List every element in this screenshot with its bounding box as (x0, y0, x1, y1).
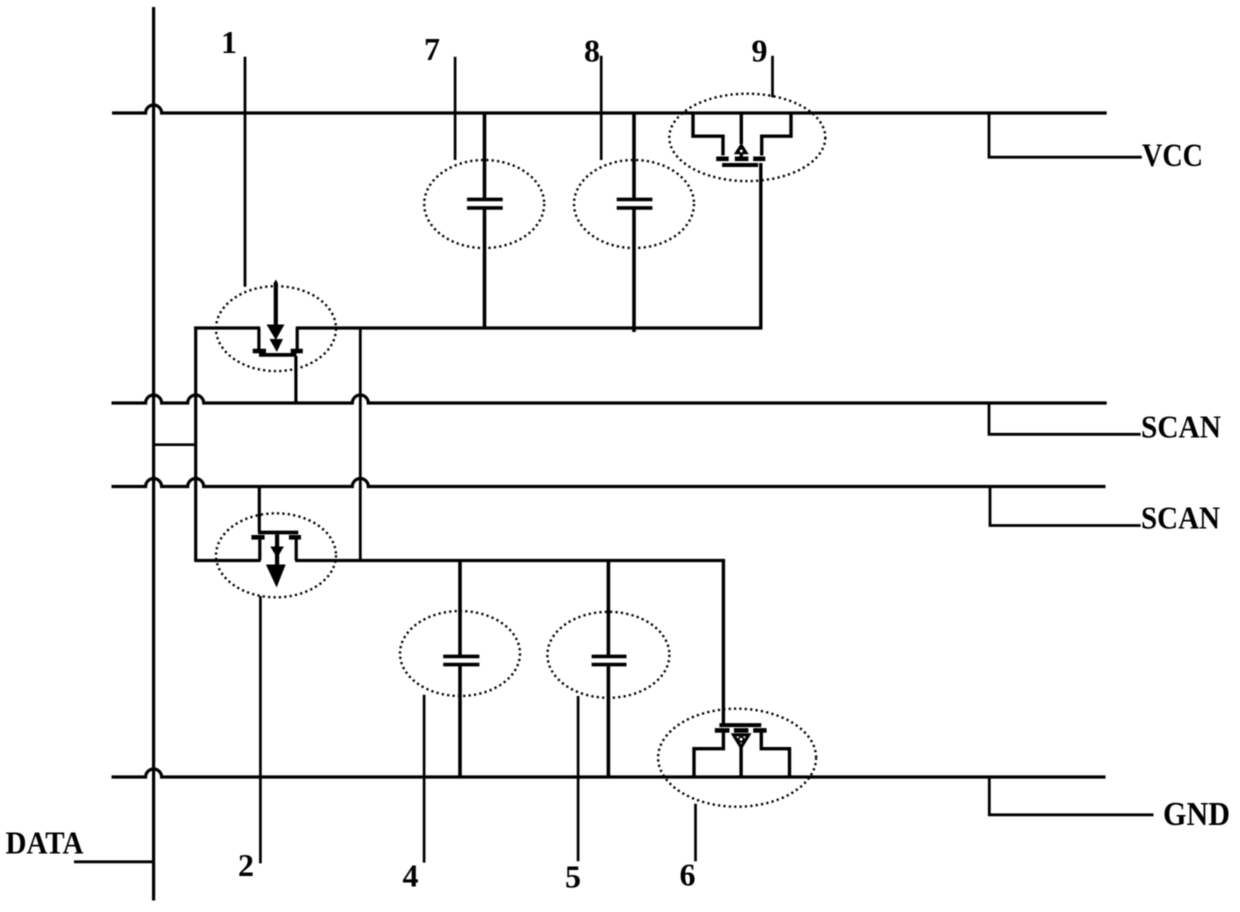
label 6 (680, 857, 696, 893)
label 4 (403, 858, 419, 894)
wire node A vertical (between DATA and transistor column) (194, 327, 197, 561)
lead line 6 (694, 804, 697, 862)
capacitor 5 (547, 561, 669, 778)
label 1 (221, 24, 237, 60)
svg-text:2: 2 (238, 847, 254, 883)
capacitor 8 (574, 112, 694, 333)
lead line 2 (259, 596, 262, 863)
wire SCAN1 terminal branch (989, 402, 1141, 435)
wire VCC terminal branch (989, 112, 1142, 158)
svg-text:GND: GND (1163, 796, 1230, 833)
bus rail SCAN (second scan line) (112, 479, 1106, 487)
wire DATA stub to label (74, 860, 155, 863)
node VCC label (1142, 138, 1203, 174)
wire GND terminal branch (989, 776, 1153, 815)
svg-text:8: 8 (584, 33, 600, 69)
ground GND label (1163, 796, 1230, 833)
wire storage node vertical (359, 328, 362, 561)
label 8 (584, 33, 600, 69)
lead line 5 (577, 696, 580, 861)
capacitor 4 (400, 561, 520, 778)
capacitor 7 (424, 112, 544, 330)
label 5 (565, 859, 581, 895)
svg-text:DATA: DATA (6, 825, 84, 861)
node SCAN1 label (1141, 409, 1221, 445)
svg-text:VCC: VCC (1142, 138, 1203, 174)
wire pixel top net segments (y=328) (194, 326, 762, 329)
lead line 7 (454, 57, 457, 160)
lead line 1 (244, 57, 247, 287)
transistor 9 (669, 94, 825, 330)
transistor 2 (216, 487, 336, 598)
lead line 4 (423, 695, 426, 863)
wire SCAN2 terminal branch (990, 485, 1141, 526)
svg-text:7: 7 (424, 31, 440, 67)
svg-text:6: 6 (680, 857, 696, 893)
lead line 8 (600, 56, 603, 160)
svg-text:4: 4 (403, 858, 419, 894)
transistor 1 (216, 280, 336, 404)
ground rail GND (112, 769, 1106, 777)
transistor 6 (658, 561, 816, 807)
wire DATA vertical line (152, 7, 155, 901)
svg-text:SCAN: SCAN (1141, 409, 1221, 445)
wire pixel bottom net segments (y=560.5) (194, 559, 725, 562)
label 9 (752, 33, 768, 69)
node DATA label (6, 825, 84, 861)
wire rung DATA to node A (154, 443, 196, 446)
power rail VCC (112, 105, 1107, 113)
lead line 9 (771, 56, 774, 98)
svg-text:1: 1 (221, 24, 237, 60)
label 7 (424, 31, 440, 67)
node SCAN2 label (1141, 500, 1220, 536)
bus rail SCAN (first scan line) (112, 395, 1107, 403)
svg-text:5: 5 (565, 859, 581, 895)
svg-text:9: 9 (752, 33, 768, 69)
label 2 (238, 847, 254, 883)
svg-text:SCAN: SCAN (1141, 500, 1220, 536)
